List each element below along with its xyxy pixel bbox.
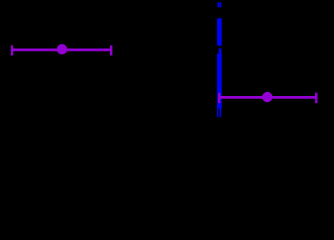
left error bar left cap (11, 45, 13, 55)
right error bar horizontal line (219, 96, 316, 99)
blue dashed vertical line: bottom-left thin dash (217, 109, 218, 118)
blue dashed vertical line: top-right dash (219, 2, 221, 7)
right error bar left cap (218, 93, 220, 103)
blue dashed vertical line: top-left dash (217, 2, 219, 7)
left error bar marker (57, 44, 68, 55)
left error bar horizontal line (12, 49, 111, 52)
blue dashed vertical line: long dash segment (217, 18, 222, 45)
right error bar marker (262, 92, 272, 102)
right error bar right cap (315, 93, 317, 104)
left error bar right cap (110, 45, 112, 55)
blue dashed vertical line: bottom-right thin dash (220, 109, 222, 118)
blue dashed vertical line: short narrow dash (219, 48, 222, 53)
blue dashed vertical line: main long dash (217, 53, 222, 108)
